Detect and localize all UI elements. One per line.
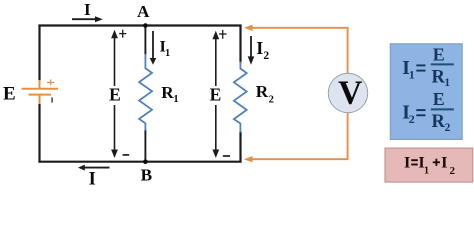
svg-text:R: R xyxy=(161,83,174,102)
svg-text:E: E xyxy=(433,44,445,64)
svg-text:E: E xyxy=(210,84,222,104)
svg-text:E: E xyxy=(433,89,445,109)
svg-text:1: 1 xyxy=(409,67,415,81)
svg-text:1: 1 xyxy=(173,94,178,105)
svg-text:1: 1 xyxy=(165,48,170,59)
svg-text:2: 2 xyxy=(269,95,274,106)
svg-text:V: V xyxy=(338,75,362,112)
svg-text:1: 1 xyxy=(424,165,429,176)
svg-text:I: I xyxy=(84,0,91,19)
svg-text:I: I xyxy=(404,153,410,172)
svg-text:2: 2 xyxy=(445,122,451,134)
svg-text:I: I xyxy=(441,153,447,172)
svg-text:E: E xyxy=(3,83,16,104)
svg-text:2: 2 xyxy=(263,50,269,62)
svg-text:R: R xyxy=(432,67,446,87)
svg-text:1: 1 xyxy=(444,77,450,89)
svg-text:2: 2 xyxy=(409,112,415,126)
svg-text:B: B xyxy=(141,165,152,184)
svg-text:E: E xyxy=(109,84,121,104)
svg-text:A: A xyxy=(137,2,150,21)
svg-text:R: R xyxy=(256,82,269,101)
svg-text:I: I xyxy=(256,38,263,58)
svg-text:I: I xyxy=(89,170,96,187)
svg-text:2: 2 xyxy=(449,165,455,177)
svg-text:R: R xyxy=(432,112,446,132)
